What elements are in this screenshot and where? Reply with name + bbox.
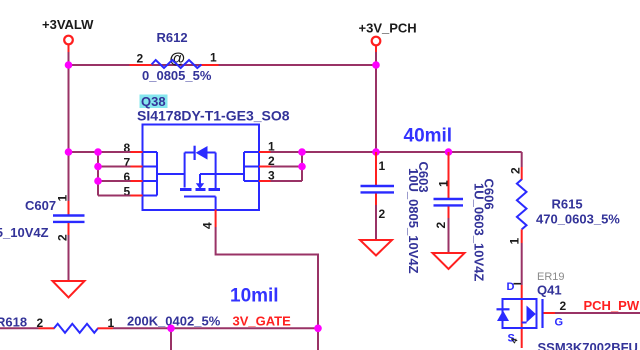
junction 40mil at C603 xyxy=(372,148,380,156)
svg-text:1: 1 xyxy=(437,180,451,187)
junction 40mil at C606 xyxy=(445,148,453,156)
wire top horizontal to R612 and +3V_PCH xyxy=(69,64,377,66)
Q38 pin 6 stub xyxy=(131,180,143,182)
wire 3V_GATE branch down left xyxy=(170,328,172,350)
svg-text:R615: R615 xyxy=(552,197,583,212)
wire rail to Q38 left pins xyxy=(69,151,99,153)
svg-text:SI4178DY-T1-GE3_SO8: SI4178DY-T1-GE3_SO8 xyxy=(137,108,290,124)
Q38 pin 1 stub xyxy=(259,151,271,153)
resistor R618 xyxy=(0,314,221,333)
power symbol +3V_PCH xyxy=(359,21,417,53)
wire to pin 8 xyxy=(98,151,131,153)
Q38 pin 2 stub xyxy=(259,166,271,168)
ground for C603 xyxy=(360,240,392,256)
capacitor C606 xyxy=(434,152,497,281)
svg-text:2: 2 xyxy=(137,52,144,66)
wire +3V_PCH vertical down to 40mil net xyxy=(375,52,377,152)
svg-text:10U_0805_10V4Z: 10U_0805_10V4Z xyxy=(0,225,49,240)
svg-text:7: 7 xyxy=(124,156,131,170)
svg-text:SSM3K7002BFU: SSM3K7002BFU xyxy=(538,340,638,350)
svg-text:Q41: Q41 xyxy=(537,283,562,298)
svg-text:PCH_PWR: PCH_PWR xyxy=(584,298,640,313)
svg-text:5: 5 xyxy=(124,185,131,199)
transistor Q38 body SI4178DY xyxy=(143,125,260,211)
transistor Q41 SSM3K7002BFU xyxy=(497,271,638,350)
junction pin bus at pin 8 xyxy=(94,148,102,156)
junction at +3VALW rail top xyxy=(65,61,73,69)
wire left pin bus vertical xyxy=(97,152,99,196)
svg-text:R618: R618 xyxy=(0,315,27,330)
svg-text:2: 2 xyxy=(379,207,386,221)
transistor Q38 reference label xyxy=(137,94,290,124)
junction right bus at pin 1 xyxy=(298,148,306,156)
svg-text:10mil: 10mil xyxy=(230,286,279,307)
Q38 pin 8 stub xyxy=(131,151,143,153)
svg-text:2: 2 xyxy=(560,299,567,313)
junction right bus at pin 2 xyxy=(298,163,306,171)
Q38 pin 7 stub xyxy=(131,166,143,168)
svg-text:1: 1 xyxy=(210,51,217,65)
wire 3V_GATE horizontal xyxy=(113,327,318,329)
wire to pin 7 xyxy=(98,166,131,168)
svg-text:1: 1 xyxy=(508,238,522,245)
Q38 pin 4 stub xyxy=(215,210,217,228)
junction 3V_GATE right branch xyxy=(314,325,322,333)
junction at +3V_PCH tap xyxy=(372,61,380,69)
svg-text:ER19: ER19 xyxy=(537,271,565,283)
ground for C606 xyxy=(433,253,465,269)
wire to pin 6 xyxy=(98,180,131,182)
Q38 pin 5 stub xyxy=(131,195,143,197)
wire to pin 2 xyxy=(271,166,303,168)
svg-text:1U_0603_10V4Z: 1U_0603_10V4Z xyxy=(472,183,487,281)
svg-text:1: 1 xyxy=(56,195,70,202)
svg-text:0_0805_5%: 0_0805_5% xyxy=(142,68,212,83)
svg-text:40mil: 40mil xyxy=(404,126,453,147)
svg-text:2: 2 xyxy=(56,234,70,241)
resistor R612 xyxy=(130,30,219,83)
ground for C607 xyxy=(53,281,85,298)
wire to pin 5 xyxy=(98,195,131,197)
wire +3VALW vertical rail xyxy=(68,52,70,201)
capacitor C603 xyxy=(361,152,432,274)
junction rail / pin bus xyxy=(65,148,73,156)
Q38 pin 3 stub xyxy=(259,180,271,182)
svg-text:R612: R612 xyxy=(157,30,188,45)
svg-text:G: G xyxy=(555,317,564,329)
junction pin bus at pin 7 xyxy=(94,163,102,171)
svg-text:1: 1 xyxy=(379,159,386,173)
svg-text:10U_0805_10V4Z: 10U_0805_10V4Z xyxy=(406,168,421,274)
svg-text:4: 4 xyxy=(201,222,215,229)
wire Q38 pin4 down and over to 3V_GATE xyxy=(216,227,318,328)
svg-text:2: 2 xyxy=(434,222,448,229)
capacitor C607 xyxy=(0,195,85,282)
svg-text:2: 2 xyxy=(509,167,523,174)
svg-text:3V_GATE: 3V_GATE xyxy=(233,314,292,329)
junction 3V_GATE left branch xyxy=(167,325,175,333)
wire to pin 3 xyxy=(271,180,303,182)
wire PCH_PWR net xyxy=(555,312,640,314)
wire 3V_GATE branch down right xyxy=(317,328,319,350)
wire right pin bus vertical xyxy=(301,152,303,181)
svg-text:+3VALW: +3VALW xyxy=(42,17,94,32)
resistor R615 xyxy=(508,152,621,285)
svg-text:C607: C607 xyxy=(25,198,56,213)
svg-text:6: 6 xyxy=(124,170,131,184)
svg-text:+3V_PCH: +3V_PCH xyxy=(359,21,417,36)
wire 40mil net horizontal xyxy=(271,151,522,153)
junction pin bus at pin 6 xyxy=(94,177,102,185)
svg-text:470_0603_5%: 470_0603_5% xyxy=(536,212,620,227)
power symbol +3VALW xyxy=(42,17,94,52)
svg-text:8: 8 xyxy=(124,141,131,155)
svg-text:D: D xyxy=(507,281,515,293)
